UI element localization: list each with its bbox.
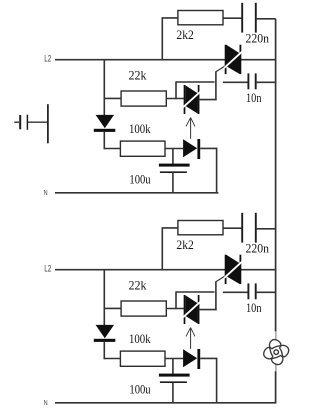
wire 2k2 drop to L2 block 2 [161,228,163,271]
arrow shaft block 2 [190,328,192,349]
wire 22k left lead block 2 [104,307,122,309]
wire L2 drop lower block 2 [103,342,105,359]
wire gate node right segment block 2 [223,291,249,293]
svg-text:L2: L2 [44,54,51,64]
wire N rail block 1 [55,192,218,194]
wire triac gate diagonal block 2 [216,275,227,282]
fan motor M [264,340,289,365]
capacitor 10n left plate block 1 [247,73,249,89]
touch sensor capacitor plate 1 [19,115,21,129]
wire 2k2 left lead block 1 [162,17,178,19]
arrow shaft block 1 [190,118,192,139]
capacitor 100u top plate block 1 [159,164,190,167]
wire 2k2 left lead block 2 [162,227,178,229]
wire triac gate diagonal block 1 [216,65,227,72]
capacitor 220n left plate block 1 [241,3,243,33]
wire diac to gate block 1 [199,99,217,101]
svg-text:220n: 220n [246,242,270,256]
wire corner down to N block 2 [216,358,218,404]
capacitor 100u bottom plate block 1 [160,171,187,173]
wire diode to corner block 2 [200,357,217,359]
triac block 2 [224,255,242,284]
resistor 2k2 block 1 [178,11,223,25]
resistor 22k block 2 [121,301,166,316]
wire 100k right lead block 1 [165,148,183,150]
capacitor 10n left plate block 2 [247,283,249,299]
svg-text:2k2: 2k2 [176,28,194,42]
arrow head left block 1 [186,118,191,127]
capacitor 100u top lead block 1 [172,148,174,164]
svg-text:100u: 100u [129,382,150,396]
wire L2 drop upper block 2 [103,270,105,325]
wire triac MT2 to bus block 2 [240,269,275,271]
wire 100k left lead block 1 [104,148,121,150]
wire 220n to bus block 2 [256,228,276,230]
wire 100k left lead block 2 [104,358,121,360]
wire triac MT2 to bus block 1 [240,59,275,61]
wire L2 drop lower block 1 [103,132,105,149]
arrow head right block 1 [191,118,195,127]
diode D1b cathode bar [197,139,200,159]
resistor 100k block 1 [120,141,165,156]
wire 22k right lead block 1 [166,98,184,100]
wire gate node left segment block 2 [176,291,215,293]
wire fan top lead [275,331,277,340]
svg-text:10n: 10n [246,91,262,105]
svg-text:10n: 10n [246,301,262,315]
diode D2b triangle [183,349,197,367]
wire corner down to N block 1 [216,148,218,194]
svg-text:L2: L2 [44,264,51,274]
wire fan bottom lead [275,364,277,371]
wire right bus lower [275,371,277,403]
svg-text:N: N [44,399,48,407]
wire 2k2 right lead block 1 [223,17,242,19]
diode D1b triangle [183,139,197,157]
wire L2 rail block 1 [55,59,226,61]
wire gate node left segment block 1 [176,81,215,83]
capacitor 220n right plate block 2 [255,213,257,243]
svg-text:220n: 220n [246,32,270,46]
wire 10n to bus block 1 [256,81,276,83]
wire 2k2 drop to L2 block 1 [161,18,163,61]
svg-text:22k: 22k [129,279,148,293]
svg-text:100k: 100k [129,122,151,136]
wire node A riser block 1 [175,81,177,99]
wire L2 rail block 2 [55,269,226,271]
wire 100k right lead block 2 [165,358,183,360]
resistor 22k block 1 [121,91,166,106]
wire node A riser block 2 [175,291,177,309]
touch sensor plate electrode [47,104,49,143]
wire 2k2 right lead block 2 [223,227,242,229]
capacitor 220n left plate block 2 [241,213,243,243]
wire 10n to bus block 2 [256,291,276,293]
triac block 1 [224,45,242,74]
wire gate node right segment block 1 [223,81,249,83]
diac block 1 [183,85,201,114]
capacitor 10n right plate block 2 [255,283,257,299]
diode D2a triangle [96,325,114,338]
diode D1a triangle [96,115,114,128]
wire right bus upper [275,19,277,332]
wire triac gate vertical block 1 [215,71,217,100]
capacitor 10n right plate block 1 [255,73,257,89]
capacitor 100u bottom lead block 2 [172,382,174,403]
wire 220n to bus block 1 [256,18,276,20]
wire 22k right lead block 2 [166,308,184,310]
capacitor 100u top lead block 2 [172,358,174,374]
diode D2a cathode bar [94,339,116,342]
svg-text:N: N [44,189,48,197]
wire diode to corner block 1 [200,147,217,149]
svg-text:100u: 100u [129,172,150,186]
capacitor 100u bottom plate block 2 [160,381,187,383]
touch sensor wire [28,121,48,123]
diode D2b cathode bar [197,349,200,369]
capacitor 100u bottom lead block 1 [172,172,174,193]
svg-text:22k: 22k [129,69,148,83]
wire N rail block 2 [55,402,276,404]
svg-text:100k: 100k [129,332,151,346]
capacitor 220n right plate block 1 [255,3,257,33]
diac block 2 [183,295,201,324]
wire L2 drop upper block 1 [103,60,105,115]
wire 22k left lead block 1 [104,97,122,99]
touch sensor capacitor plate 2 [26,115,28,130]
diode D1a cathode bar [94,129,116,132]
svg-text:2k2: 2k2 [176,238,194,252]
resistor 100k block 2 [120,351,165,366]
arrow head left block 2 [186,328,191,337]
arrow head right block 2 [191,328,195,337]
capacitor 100u top plate block 2 [159,374,190,377]
wire triac gate vertical block 2 [215,281,217,310]
resistor 2k2 block 2 [178,221,223,235]
wire diac to gate block 2 [199,309,217,311]
touch sensor stub wire [14,121,19,123]
